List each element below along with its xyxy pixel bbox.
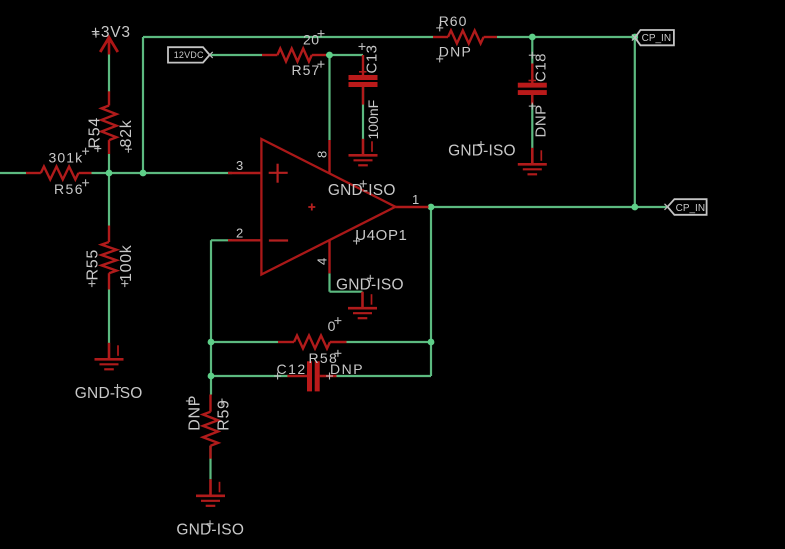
svg-text:GND-ISO: GND-ISO <box>328 182 396 199</box>
svg-text:4: 4 <box>315 258 330 265</box>
svg-text:R55: R55 <box>84 249 101 280</box>
svg-text:R59: R59 <box>216 399 233 430</box>
svg-text:R57: R57 <box>292 62 321 78</box>
svg-text:82k: 82k <box>118 119 135 147</box>
svg-text:12VDC: 12VDC <box>174 50 204 60</box>
svg-text:R56: R56 <box>54 181 84 197</box>
svg-text:DNP: DNP <box>533 104 550 137</box>
svg-text:R54: R54 <box>86 117 103 148</box>
svg-text:R60: R60 <box>439 13 468 29</box>
svg-text:CP_IN: CP_IN <box>676 203 705 214</box>
svg-text:C12: C12 <box>277 361 307 377</box>
svg-text:8: 8 <box>315 151 330 158</box>
svg-text:C18: C18 <box>533 53 550 82</box>
svg-text:U4OP1: U4OP1 <box>355 227 407 244</box>
svg-text:100k: 100k <box>118 244 135 282</box>
svg-text:+3V3: +3V3 <box>91 24 131 41</box>
svg-text:2: 2 <box>236 225 243 240</box>
svg-text:GND-ISO: GND-ISO <box>448 143 516 160</box>
svg-text:CP_IN: CP_IN <box>642 33 671 44</box>
svg-text:1: 1 <box>412 192 419 207</box>
svg-text:GND-ISO: GND-ISO <box>75 385 143 402</box>
svg-text:301k: 301k <box>49 150 84 166</box>
svg-text:20: 20 <box>303 31 320 47</box>
svg-text:3: 3 <box>236 158 243 173</box>
svg-text:100nF: 100nF <box>365 100 381 140</box>
svg-text:C13: C13 <box>363 44 380 73</box>
svg-text:DNP: DNP <box>439 44 472 60</box>
svg-text:DNP: DNP <box>330 361 364 377</box>
